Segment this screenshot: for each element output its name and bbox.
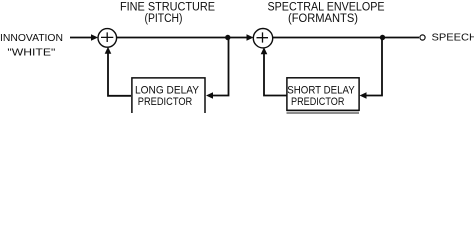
svg-text:(PITCH): (PITCH) [145, 13, 183, 25]
svg-text:SPECTRAL ENVELOPE: SPECTRAL ENVELOPE [268, 1, 385, 13]
svg-text:FINE STRUCTURE: FINE STRUCTURE [120, 1, 215, 13]
svg-text:INNOVATION: INNOVATION [0, 33, 63, 44]
svg-text:SHORT DELAY: SHORT DELAY [287, 84, 355, 96]
svg-text:"WHITE": "WHITE" [7, 47, 55, 58]
svg-text:(FORMANTS): (FORMANTS) [288, 13, 358, 25]
svg-text:PREDICTOR: PREDICTOR [138, 96, 193, 108]
svg-text:LONG DELAY: LONG DELAY [135, 84, 200, 96]
svg-text:SPEECH: SPEECH [432, 33, 474, 44]
svg-text:PREDICTOR: PREDICTOR [291, 96, 344, 108]
